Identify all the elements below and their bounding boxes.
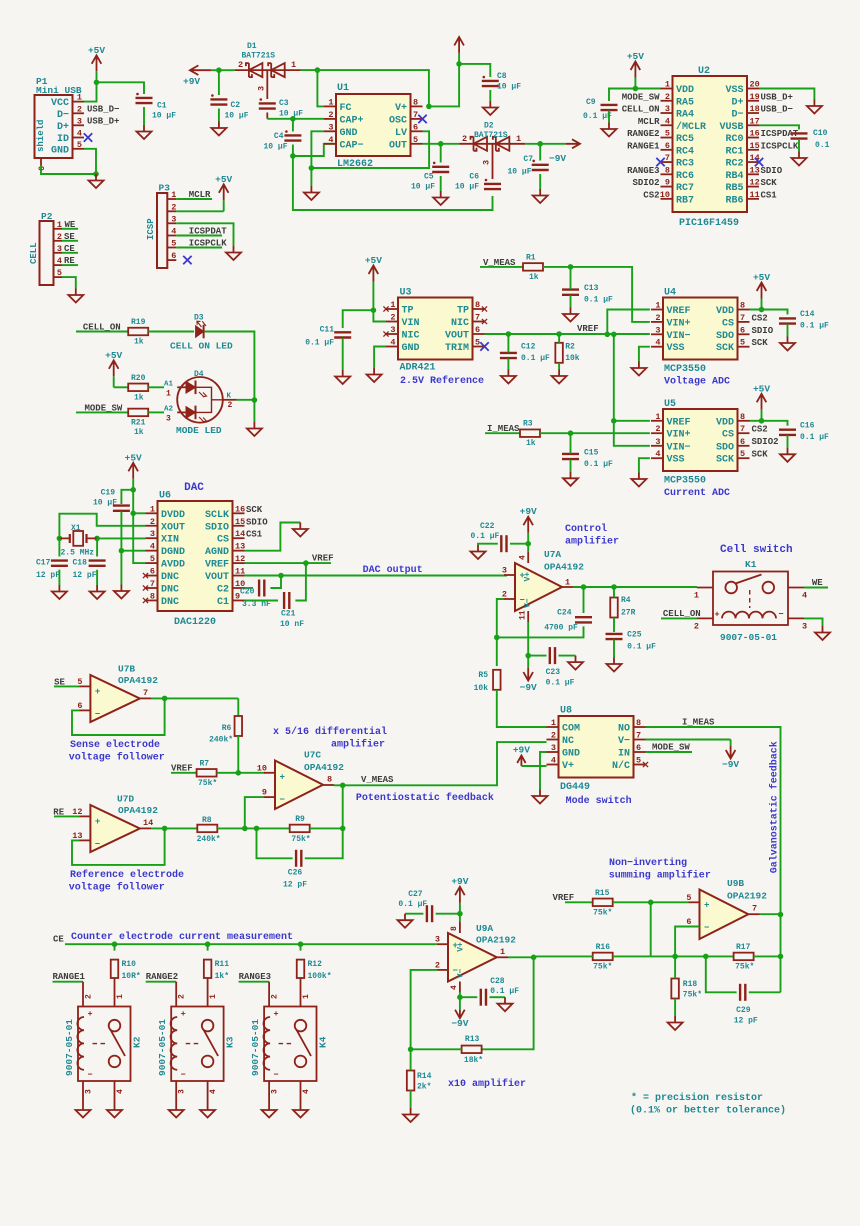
wire X1 to C18 bbox=[96, 538, 98, 556]
junction U9A out bbox=[531, 955, 537, 961]
svg-text:X1: X1 bbox=[71, 524, 81, 533]
svg-text:Non−inverting: Non−inverting bbox=[609, 857, 687, 869]
svg-text:V_MEAS: V_MEAS bbox=[483, 258, 516, 268]
svg-text:C19: C19 bbox=[101, 489, 116, 498]
junction +5V node bbox=[94, 80, 100, 86]
net label CELL_ON at K1 bbox=[661, 617, 697, 619]
svg-text:10 µF: 10 µF bbox=[411, 183, 435, 192]
svg-text:20: 20 bbox=[750, 80, 760, 90]
svg-text:VIN+: VIN+ bbox=[667, 430, 691, 441]
svg-text:SCK: SCK bbox=[761, 178, 778, 188]
svg-text:RB5: RB5 bbox=[725, 183, 743, 194]
ground C13 bbox=[563, 308, 578, 322]
net label I_MEAS at R3 bbox=[485, 432, 520, 434]
svg-text:RA5: RA5 bbox=[676, 97, 694, 108]
svg-text:7: 7 bbox=[143, 688, 148, 698]
resistor R3 1k bbox=[520, 429, 540, 437]
svg-text:+5V: +5V bbox=[215, 174, 232, 185]
wire U9B output bbox=[760, 913, 781, 915]
svg-text:K4: K4 bbox=[318, 1036, 329, 1048]
wire C29 right bbox=[749, 991, 781, 993]
svg-text:C24: C24 bbox=[557, 609, 572, 618]
svg-text:SDO: SDO bbox=[716, 331, 734, 342]
junction OUT C5 bbox=[438, 141, 444, 147]
svg-text:3: 3 bbox=[178, 1089, 187, 1094]
wire +9V to C2 bbox=[218, 70, 220, 95]
pin3 stub U9A bbox=[437, 943, 448, 945]
wire U1 GND to ground bbox=[311, 131, 324, 186]
svg-text:COM: COM bbox=[562, 724, 580, 735]
power +9V at U9A bbox=[459, 903, 461, 914]
svg-text:Current ADC: Current ADC bbox=[664, 488, 730, 499]
svg-text:A2: A2 bbox=[164, 406, 174, 414]
junction R15 R16 bbox=[648, 900, 654, 906]
svg-text:D−: D− bbox=[731, 110, 743, 121]
power -9V at U9A bbox=[459, 997, 461, 1009]
svg-text:ADR421: ADR421 bbox=[400, 363, 436, 374]
svg-text:7: 7 bbox=[740, 313, 745, 323]
junction R8 b bbox=[254, 826, 260, 832]
power -9V at U8 bbox=[730, 740, 732, 747]
svg-text:1: 1 bbox=[516, 134, 521, 144]
ground U1 bbox=[304, 186, 319, 200]
capacitor C25 bbox=[606, 633, 623, 635]
svg-text:+: + bbox=[87, 1009, 92, 1019]
svg-text:OPA2192: OPA2192 bbox=[727, 891, 767, 902]
svg-text:D−: D− bbox=[57, 110, 69, 121]
relay K1 9007-05-01 cell switch bbox=[713, 572, 788, 626]
svg-text:RANGE3: RANGE3 bbox=[239, 972, 271, 982]
net label CE at P2 bbox=[62, 252, 78, 254]
wire out rail down bbox=[780, 914, 782, 992]
svg-text:10 µF: 10 µF bbox=[152, 112, 176, 121]
svg-text:D+: D+ bbox=[731, 97, 743, 108]
ground C11 bbox=[335, 370, 350, 384]
svg-text:18: 18 bbox=[750, 104, 760, 114]
svg-text:R2: R2 bbox=[565, 343, 575, 352]
svg-text:+5V: +5V bbox=[753, 272, 770, 283]
wire C14 to ground bbox=[787, 324, 789, 337]
net label RANGE3 bbox=[239, 981, 270, 983]
junction CE R12 bbox=[298, 941, 304, 947]
junction DVDD bbox=[130, 511, 136, 517]
svg-text:−9V: −9V bbox=[451, 1018, 468, 1029]
junction R4 bbox=[611, 584, 617, 590]
net label CELL_ON at R19 bbox=[76, 331, 129, 333]
svg-text:R9: R9 bbox=[295, 815, 305, 824]
svg-text:NO: NO bbox=[618, 724, 630, 735]
svg-text:3: 3 bbox=[390, 325, 395, 335]
net label V_MEAS at R1 bbox=[480, 266, 523, 268]
svg-text:1k*: 1k* bbox=[215, 972, 229, 981]
pin11 stub U7A V- bbox=[527, 611, 529, 622]
wire C16 to ground bbox=[787, 435, 789, 448]
svg-text:CS2: CS2 bbox=[643, 190, 659, 200]
junction C28 bbox=[457, 994, 463, 1000]
net label VREF at R15 bbox=[565, 901, 593, 903]
svg-text:NIC: NIC bbox=[402, 331, 420, 342]
svg-text:5: 5 bbox=[740, 449, 745, 459]
svg-text:10k: 10k bbox=[474, 684, 489, 693]
svg-text:5: 5 bbox=[740, 338, 745, 348]
svg-text:R14: R14 bbox=[417, 1072, 432, 1081]
pin14 stub U7D bbox=[140, 827, 151, 829]
wire R14 to ground bbox=[410, 1091, 412, 1109]
svg-text:−9V: −9V bbox=[722, 759, 739, 770]
svg-text:SDIO2: SDIO2 bbox=[752, 437, 779, 447]
resistor R14 2k* bbox=[407, 1071, 415, 1091]
svg-text:−9V: −9V bbox=[520, 682, 537, 693]
ground U8 bbox=[533, 790, 548, 804]
wire U7C output V_MEAS to U8 NC bbox=[334, 742, 547, 785]
svg-text:1: 1 bbox=[655, 301, 660, 311]
svg-text:6: 6 bbox=[740, 437, 745, 447]
wire FC to top rail bbox=[317, 70, 324, 106]
ground K2 coil bbox=[76, 1104, 91, 1118]
svg-text:MODE LED: MODE LED bbox=[176, 425, 222, 436]
svg-text:4: 4 bbox=[390, 338, 395, 348]
resistor R10 10R* bbox=[111, 960, 119, 978]
svg-text:15: 15 bbox=[235, 517, 245, 527]
svg-text:6: 6 bbox=[37, 166, 47, 171]
junction U5 VDD bbox=[759, 418, 765, 424]
svg-text:1: 1 bbox=[655, 412, 660, 422]
capacitor C20 bbox=[258, 580, 260, 597]
wire +9V to U9A V+ bbox=[459, 914, 461, 922]
wire R2 to ground bbox=[558, 363, 560, 370]
svg-text:5: 5 bbox=[665, 129, 670, 139]
ground AGND bbox=[293, 523, 308, 537]
svg-text:10R*: 10R* bbox=[122, 972, 141, 981]
pin1 stub K3 bbox=[207, 978, 209, 1007]
svg-text:+5V: +5V bbox=[365, 255, 382, 266]
svg-text:K: K bbox=[227, 393, 232, 401]
capacitor C2 bbox=[210, 98, 227, 100]
svg-text:C13: C13 bbox=[584, 284, 599, 293]
svg-text:C8: C8 bbox=[497, 72, 507, 81]
svg-text:Potentiostatic feedback: Potentiostatic feedback bbox=[356, 792, 494, 804]
resistor R2 10k bbox=[555, 343, 563, 363]
svg-text:4: 4 bbox=[450, 985, 459, 990]
svg-text:R15: R15 bbox=[595, 889, 610, 898]
svg-text:4: 4 bbox=[209, 1089, 218, 1094]
svg-text:CAP+: CAP+ bbox=[340, 115, 364, 126]
svg-text:8: 8 bbox=[740, 412, 745, 422]
ground U4 VSS bbox=[631, 362, 646, 376]
junction U7A out bbox=[581, 584, 587, 590]
wire C11 to ground bbox=[342, 338, 344, 370]
wire C22 bbox=[510, 543, 528, 545]
power +5V at U5 bbox=[761, 410, 763, 421]
svg-text:4: 4 bbox=[171, 227, 176, 237]
svg-text:DVDD: DVDD bbox=[161, 510, 185, 521]
wire +9V to U7A V+ bbox=[527, 544, 529, 552]
wire R4 to C25 bbox=[613, 618, 615, 633]
svg-text:C28: C28 bbox=[490, 977, 505, 986]
wire U9A pin2 down bbox=[411, 970, 437, 1049]
svg-text:U7A: U7A bbox=[544, 549, 561, 560]
wire +5V to R20 bbox=[114, 386, 129, 388]
capacitor C24 bbox=[575, 616, 592, 618]
svg-text:SDIO: SDIO bbox=[246, 517, 268, 527]
wire U9A V- to -9V bbox=[459, 992, 461, 998]
svg-text:5: 5 bbox=[77, 140, 82, 150]
svg-text:CE: CE bbox=[53, 935, 64, 945]
pin5 stub U9B bbox=[689, 901, 700, 903]
wire C21 to VREF junction bbox=[295, 563, 306, 600]
svg-text:VDD: VDD bbox=[716, 306, 734, 317]
pin6 stub U7B bbox=[80, 709, 91, 711]
wire U9B feedback node bbox=[675, 927, 699, 957]
wire U7A output to K1 bbox=[573, 586, 697, 588]
IC U2 PIC16F1459 microcontroller bbox=[673, 76, 748, 212]
svg-text:C26: C26 bbox=[288, 869, 303, 878]
svg-text:5: 5 bbox=[413, 135, 418, 145]
svg-text:C29: C29 bbox=[736, 1006, 751, 1015]
svg-text:CE: CE bbox=[64, 244, 75, 254]
wire C13 to ground bbox=[570, 295, 572, 307]
svg-text:6: 6 bbox=[171, 251, 176, 261]
svg-text:+5V: +5V bbox=[88, 45, 105, 56]
capacitor C11 bbox=[334, 331, 351, 333]
svg-text:13: 13 bbox=[750, 165, 760, 175]
wire C5 top bbox=[440, 144, 442, 163]
ground C1 bbox=[137, 125, 152, 139]
svg-text:VSS: VSS bbox=[725, 85, 743, 96]
svg-text:D2: D2 bbox=[484, 122, 494, 131]
pin1 stub U9A bbox=[497, 956, 508, 958]
ground C8 bbox=[483, 101, 498, 115]
svg-text:ICSPDAT: ICSPDAT bbox=[189, 227, 227, 237]
junction +5V C19 bbox=[130, 487, 136, 493]
svg-text:7: 7 bbox=[475, 313, 480, 323]
svg-text:9007-05-01: 9007-05-01 bbox=[157, 1019, 168, 1076]
wire R16 up bbox=[650, 902, 652, 956]
svg-text:0.1 µF: 0.1 µF bbox=[584, 296, 613, 305]
svg-text:TRIM: TRIM bbox=[445, 343, 469, 354]
junction C27 bbox=[457, 911, 463, 917]
svg-text:A1: A1 bbox=[164, 381, 174, 389]
svg-text:SE: SE bbox=[54, 677, 65, 687]
svg-text:−: − bbox=[87, 1070, 92, 1080]
wire CE to R11 bbox=[207, 944, 209, 950]
svg-text:6: 6 bbox=[665, 141, 670, 151]
wire U4 VSS to ground bbox=[639, 347, 650, 362]
svg-text:C20: C20 bbox=[240, 588, 255, 597]
svg-text:C7: C7 bbox=[523, 155, 533, 164]
svg-text:V+: V+ bbox=[524, 572, 533, 582]
svg-text:C9: C9 bbox=[586, 98, 596, 107]
connector P3 ICSP bbox=[157, 193, 167, 268]
svg-text:RB7: RB7 bbox=[676, 195, 694, 206]
svg-text:2: 2 bbox=[150, 517, 155, 527]
wire +9V rail to D1 bbox=[219, 69, 235, 71]
wire C22 to ground bbox=[478, 544, 498, 545]
wire D3 to ground node bbox=[205, 332, 255, 423]
junction U3 VIN node bbox=[371, 307, 377, 313]
wire C4 bottom to CAP- and loop bbox=[293, 144, 336, 156]
wire U8 NO I_MEAS to feedback rail bbox=[646, 727, 781, 915]
wire C18 to ground bbox=[96, 570, 98, 585]
ground U3 bbox=[367, 368, 382, 382]
pin8 stub U7C bbox=[323, 784, 334, 786]
svg-text:10 µF: 10 µF bbox=[93, 499, 117, 508]
wire U9A out to R16 bbox=[508, 956, 534, 958]
resistor R13 18k* bbox=[462, 1046, 482, 1054]
relay K4 9007-05-01 bbox=[264, 1007, 316, 1082]
svg-text:6: 6 bbox=[150, 567, 155, 577]
svg-text:GND: GND bbox=[51, 145, 69, 156]
net label ICSPCLK at P3 bbox=[176, 247, 222, 249]
resistor R17 75k* bbox=[734, 953, 754, 961]
svg-text:3: 3 bbox=[802, 622, 807, 632]
wire U7D output to R8 bbox=[151, 827, 197, 829]
svg-text:VREF: VREF bbox=[577, 324, 599, 334]
pin5 stub U7B bbox=[80, 685, 91, 687]
svg-text:C21: C21 bbox=[281, 610, 296, 619]
pin2 stub U9A bbox=[437, 969, 448, 971]
capacitor C4 bbox=[284, 134, 301, 136]
svg-text:12 pF: 12 pF bbox=[73, 571, 97, 580]
ground P2 bbox=[68, 289, 83, 303]
svg-text:8: 8 bbox=[665, 165, 670, 175]
resistor R11 1k* bbox=[204, 960, 212, 978]
svg-text:USB_D−: USB_D− bbox=[87, 104, 119, 114]
svg-text:0.1 µF: 0.1 µF bbox=[305, 339, 334, 348]
svg-text:VIN: VIN bbox=[402, 318, 420, 329]
power +5V at R20 bbox=[113, 376, 115, 387]
power arrow above C8 bbox=[458, 53, 460, 64]
svg-text:RA4: RA4 bbox=[676, 110, 694, 121]
svg-text:XOUT: XOUT bbox=[161, 522, 185, 533]
svg-text:SDIO: SDIO bbox=[761, 166, 783, 176]
pin4 stub U9A V- bbox=[459, 982, 461, 993]
svg-text:U7C: U7C bbox=[304, 750, 321, 761]
op-amp U9B OPA2192 summing amplifier bbox=[700, 890, 749, 940]
ground C12 bbox=[501, 370, 516, 384]
svg-text:12 pF: 12 pF bbox=[734, 1017, 758, 1026]
svg-text:4: 4 bbox=[802, 591, 807, 601]
svg-text:NIC: NIC bbox=[451, 318, 469, 329]
wire U7C out down to R9 bbox=[342, 785, 344, 828]
svg-text:SCK: SCK bbox=[716, 455, 734, 466]
svg-text:D4: D4 bbox=[194, 370, 204, 379]
wire C10 to ground bbox=[798, 139, 800, 152]
ground C7 bbox=[533, 189, 548, 203]
capacitor C7 bbox=[532, 164, 549, 166]
wire C17 to ground bbox=[58, 570, 60, 585]
svg-text:−: − bbox=[95, 710, 100, 720]
svg-text:75k*: 75k* bbox=[735, 962, 754, 971]
resistor R16 75k* bbox=[593, 953, 613, 961]
svg-text:3: 3 bbox=[502, 566, 507, 576]
capacitor C3 bbox=[259, 102, 276, 104]
svg-text:7: 7 bbox=[413, 110, 418, 120]
svg-text:75k*: 75k* bbox=[198, 779, 217, 788]
svg-text:R18: R18 bbox=[683, 980, 698, 989]
svg-text:RE: RE bbox=[53, 807, 64, 817]
svg-text:C10: C10 bbox=[813, 129, 828, 138]
junction U4 VDD bbox=[759, 307, 765, 313]
svg-text:+: + bbox=[95, 817, 100, 827]
svg-text:OPA4192: OPA4192 bbox=[118, 675, 158, 686]
svg-text:10 µF: 10 µF bbox=[497, 83, 521, 92]
wire AGND to ground bbox=[245, 523, 301, 551]
wire +5V to P1 VCC and C1 bbox=[84, 82, 97, 101]
wire R8 to junctions bbox=[217, 827, 289, 829]
svg-text:2: 2 bbox=[694, 622, 699, 632]
svg-text:+: + bbox=[714, 610, 719, 620]
svg-text:RC6: RC6 bbox=[676, 171, 694, 182]
svg-text:3: 3 bbox=[166, 415, 171, 424]
svg-text:C16: C16 bbox=[800, 421, 815, 430]
svg-text:3: 3 bbox=[665, 104, 670, 114]
svg-text:1: 1 bbox=[565, 578, 570, 588]
pin2 stub K4 bbox=[268, 982, 270, 1007]
wire LV to gnd node bbox=[311, 131, 429, 168]
svg-text:MCLR: MCLR bbox=[638, 117, 660, 127]
net label MODE_SW at R21 bbox=[76, 411, 129, 413]
svg-text:1: 1 bbox=[171, 190, 176, 200]
wire X1 to C17 bbox=[58, 538, 60, 556]
svg-text:CS: CS bbox=[217, 535, 229, 546]
capacitor C5 bbox=[432, 166, 449, 168]
power +5V at U4 bbox=[761, 299, 763, 310]
svg-text:AVDD: AVDD bbox=[161, 560, 185, 571]
wire P3 pin2 to +5V bbox=[176, 210, 223, 212]
svg-text:2: 2 bbox=[171, 202, 176, 212]
svg-text:8: 8 bbox=[475, 300, 480, 310]
capacitor C10 bbox=[791, 132, 808, 134]
svg-text:2: 2 bbox=[551, 731, 556, 741]
svg-text:VREF: VREF bbox=[553, 893, 575, 903]
junction C13 bbox=[568, 264, 574, 270]
dual LED D4 MODE LED bbox=[177, 377, 223, 423]
svg-text:Control: Control bbox=[565, 523, 607, 535]
wire CE to R10 bbox=[114, 944, 116, 950]
svg-text:+9V: +9V bbox=[520, 506, 537, 517]
op-amp U7D OPA4192 reference electrode follower bbox=[90, 805, 139, 852]
pin2 stub U7A bbox=[504, 598, 515, 600]
svg-text:19: 19 bbox=[750, 92, 760, 102]
svg-text:ID: ID bbox=[57, 134, 69, 145]
svg-text:RE: RE bbox=[64, 256, 75, 266]
junction R17 out bbox=[778, 954, 784, 960]
svg-text:8: 8 bbox=[413, 97, 418, 107]
svg-text:VUSB: VUSB bbox=[719, 122, 743, 133]
svg-text:1: 1 bbox=[665, 80, 670, 90]
wire D2 pin3 to C6 bbox=[492, 144, 494, 179]
svg-text:AGND: AGND bbox=[205, 547, 229, 558]
svg-text:11: 11 bbox=[750, 190, 760, 200]
svg-text:10k: 10k bbox=[565, 354, 580, 363]
pin2 stub K2 bbox=[82, 982, 84, 1007]
power +5V at U3 bbox=[372, 282, 374, 293]
svg-text:MODE_SW: MODE_SW bbox=[85, 403, 123, 413]
svg-text:V+: V+ bbox=[395, 103, 407, 114]
op-amp U7A OPA4192 control amplifier bbox=[515, 563, 562, 611]
svg-text:R5: R5 bbox=[478, 671, 488, 680]
svg-text:PIC16F1459: PIC16F1459 bbox=[679, 218, 739, 229]
svg-text:R16: R16 bbox=[596, 943, 611, 952]
capacitor C18 bbox=[89, 559, 106, 561]
svg-text:R7: R7 bbox=[200, 759, 210, 768]
svg-text:SCK: SCK bbox=[752, 338, 769, 348]
crystal X1 2.5 MHz bbox=[59, 537, 97, 539]
net label RANGE1 bbox=[53, 981, 84, 983]
svg-text:CS1: CS1 bbox=[246, 530, 263, 540]
svg-text:U5: U5 bbox=[664, 399, 676, 410]
